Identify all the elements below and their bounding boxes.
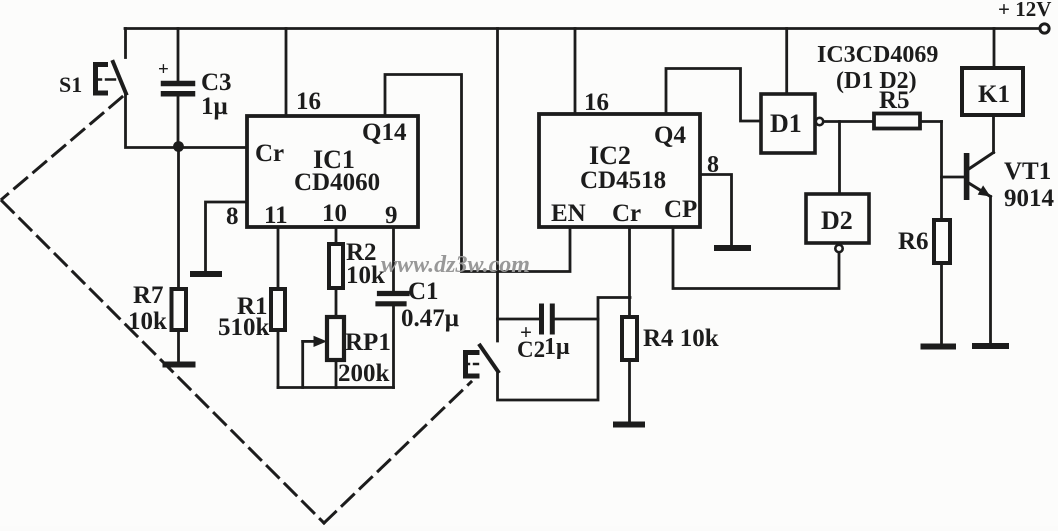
pin 9 IC1	[392, 227, 395, 291]
dashed link left edge to bottom vertex	[2, 201, 324, 523]
wire CP to D2 output	[673, 227, 839, 289]
resistor R2	[329, 244, 343, 288]
capacitor C3	[158, 29, 193, 148]
svg-text:S1: S1	[59, 72, 82, 97]
op IC1 CD4060 box	[247, 116, 418, 227]
svg-text:C2: C2	[517, 337, 545, 362]
svg-text:9014: 9014	[1004, 185, 1055, 212]
svg-text:8: 8	[707, 152, 719, 178]
svg-text:200k: 200k	[338, 360, 390, 387]
pin 8 IC2 wire	[700, 175, 732, 246]
node D2 output bubble	[835, 245, 842, 252]
svg-text:16: 16	[296, 88, 321, 115]
svg-text:Cr: Cr	[255, 140, 284, 167]
svg-text:C1: C1	[408, 278, 439, 305]
svg-text:EN: EN	[551, 200, 586, 227]
svg-text:Q4: Q4	[654, 122, 686, 149]
gate D2	[806, 194, 869, 243]
svg-text:8: 8	[226, 203, 239, 230]
svg-text:R4 10k: R4 10k	[643, 325, 719, 352]
wire Q14 to EN of IC2	[385, 75, 570, 272]
gate D1	[761, 94, 815, 153]
resistor R4	[628, 227, 631, 317]
svg-text:RP1: RP1	[345, 329, 391, 356]
resistor R6	[934, 220, 950, 263]
capacitor C1	[380, 291, 408, 296]
svg-text:VT1: VT1	[1004, 158, 1051, 185]
wire S2 bottom loop	[498, 298, 631, 401]
svg-text:11: 11	[264, 202, 288, 229]
svg-text:1μ: 1μ	[544, 334, 570, 360]
capacitor C2	[498, 318, 540, 321]
switch S2	[466, 346, 499, 377]
node junction dot C3/R7/Cr	[173, 141, 184, 152]
svg-text:Cr: Cr	[612, 200, 641, 227]
node +12V terminal	[1040, 24, 1049, 33]
svg-text:10k: 10k	[346, 262, 385, 289]
ground VT1 emitter	[975, 343, 1006, 349]
ground pin8 IC2	[717, 245, 748, 251]
wire rail to C2/S2	[496, 29, 499, 342]
wire rail to D1 top	[785, 29, 788, 95]
transistor VT1	[992, 115, 995, 153]
wire R5 to base and R6	[940, 122, 943, 221]
ground R6	[924, 344, 954, 350]
svg-text:K1: K1	[978, 81, 1010, 108]
svg-text:16: 16	[584, 89, 609, 116]
op IC2 CD4518 box	[539, 114, 700, 227]
svg-text:IC3CD4069: IC3CD4069	[817, 42, 938, 68]
svg-text:R7: R7	[133, 282, 164, 309]
svg-text:1μ: 1μ	[201, 93, 228, 120]
svg-text:C3: C3	[201, 69, 232, 96]
svg-text:+ 12V: + 12V	[998, 0, 1051, 21]
resistor R1	[271, 289, 285, 330]
svg-text:IC2: IC2	[589, 141, 631, 170]
resistor R7	[177, 148, 180, 290]
svg-text:www.dz3w.com: www.dz3w.com	[381, 252, 530, 278]
pin 10 IC1	[335, 227, 338, 244]
wire D1 out down to D2	[838, 122, 841, 195]
pin 11 IC1	[277, 227, 280, 289]
svg-text:9: 9	[385, 202, 398, 229]
switch S1	[96, 62, 127, 94]
potentiometer RP1	[327, 317, 344, 360]
svg-text:D1: D1	[770, 109, 802, 138]
wire Q4 to D1 input	[666, 69, 761, 122]
wire S1 bottom lead to Cr of IC1	[126, 94, 248, 148]
svg-text:CD4518: CD4518	[580, 167, 666, 194]
RP1 wiper arrow	[303, 340, 314, 343]
wire +12V top rail	[125, 27, 1040, 30]
wire D1 out to R5	[824, 120, 875, 123]
pin 16 IC1	[285, 29, 288, 117]
svg-text:10: 10	[322, 200, 347, 227]
svg-text:D2: D2	[821, 206, 853, 235]
wire rail to K1	[993, 29, 996, 69]
svg-text:R6: R6	[898, 228, 929, 255]
ground R7	[166, 362, 193, 368]
pin 16 IC2	[574, 29, 577, 115]
svg-text:CP: CP	[664, 196, 697, 223]
svg-text:Q14: Q14	[362, 119, 407, 146]
wire bottom bus R1/RP1/C1	[278, 386, 394, 389]
ground R4	[616, 422, 642, 428]
svg-text:+: +	[158, 59, 169, 80]
relay K1	[962, 68, 1023, 115]
ground pin8 IC1	[193, 271, 219, 277]
svg-text:0.47μ: 0.47μ	[401, 305, 459, 332]
svg-text:510k: 510k	[218, 314, 270, 341]
pin 8 IC1 wire	[206, 202, 248, 271]
dashed link S1 to left edge	[2, 97, 122, 199]
resistor R5	[874, 114, 920, 129]
svg-text:R5: R5	[879, 87, 910, 114]
wire S1 top lead	[124, 29, 127, 58]
svg-text:CD4060: CD4060	[294, 169, 380, 196]
dashed link bottom vertex to S2	[324, 382, 471, 523]
node D1 output bubble	[816, 118, 823, 125]
